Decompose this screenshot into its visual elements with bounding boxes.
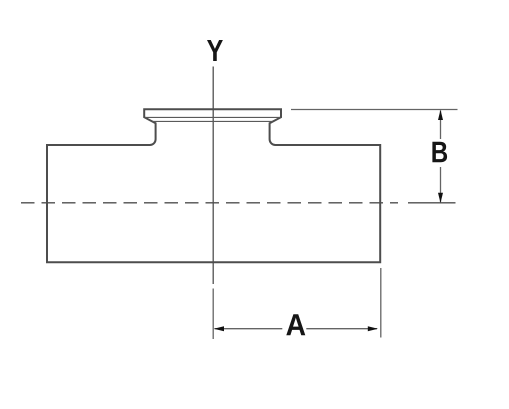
dimension A line right segment [306,328,377,330]
tee body and ferrule outline [47,109,380,262]
dimension B arrowhead down [438,193,443,203]
horizontal centerline solid end segment (right) [408,202,456,204]
dimension B arrowhead up [438,110,443,120]
vertical centerline (Y axis) [212,67,214,285]
horizontal dashed centerline [21,202,398,204]
label A [286,314,305,335]
dimension B line lower segment [440,167,442,202]
ferrule weld shoulder line [153,120,273,122]
vertical centerline extension to dimension A [212,289,214,340]
label B [432,142,447,162]
dimension A line left segment [215,328,283,330]
ferrule flange underside line [145,116,280,118]
dimension B line upper segment [440,111,442,140]
label Y (branch centerline) [207,40,223,61]
right extension line from body face to dimension A [380,268,382,338]
dimension A arrowhead left [214,326,224,331]
dimension A arrowhead right [368,326,378,331]
extension line from flange top to dimension B [291,109,458,111]
